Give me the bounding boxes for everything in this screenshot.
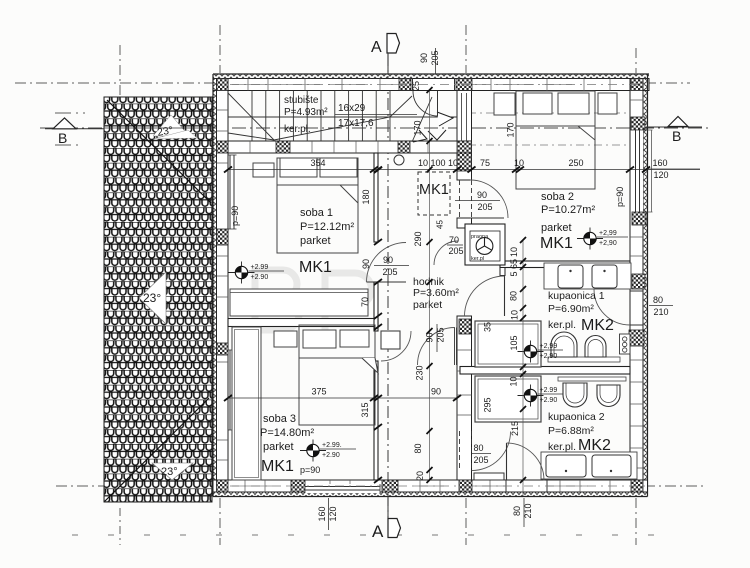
svg-text:10: 10	[514, 158, 524, 168]
soba1 pillow 1	[280, 158, 317, 177]
svg-text:parket: parket	[263, 441, 294, 453]
soba2 bed	[516, 91, 595, 189]
svg-text:parket: parket	[300, 235, 331, 247]
svg-text:parket: parket	[413, 299, 442, 311]
svg-text:315: 315	[360, 402, 370, 417]
checker blocks left wall	[217, 141, 229, 153]
checker blocks top wall	[217, 79, 229, 91]
svg-text:25: 25	[411, 81, 421, 91]
svg-text:MK2: MK2	[578, 437, 611, 454]
stair bottom wall	[228, 141, 472, 153]
svg-text:+2,90: +2,90	[599, 240, 617, 247]
svg-text:205: 205	[436, 327, 446, 342]
kup2 sink 2	[592, 455, 631, 477]
svg-text:375: 375	[311, 387, 326, 397]
svg-text:17x17,6: 17x17,6	[338, 118, 374, 129]
kup1 bidet	[585, 336, 606, 358]
svg-text:+2,99: +2,99	[599, 230, 617, 237]
svg-text:230: 230	[415, 365, 425, 380]
svg-text:A: A	[371, 39, 382, 56]
svg-text:kupaonica 1: kupaonica 1	[548, 290, 605, 302]
laundry closet box	[465, 224, 505, 265]
kup2 upper door leaf	[455, 328, 457, 366]
svg-text:70: 70	[360, 297, 370, 307]
svg-text:5: 5	[509, 271, 519, 276]
wall soba2-kupaonica1	[500, 261, 630, 268]
window soba1 left wall	[229, 155, 237, 229]
svg-text:210: 210	[653, 307, 668, 317]
svg-text:90: 90	[419, 53, 429, 63]
kup2 level marker	[518, 385, 564, 407]
kup1 shelf	[548, 357, 620, 362]
checker blocks bottom wall	[291, 480, 305, 492]
vertical dim chain x523	[509, 237, 527, 496]
soba2 level marker	[577, 228, 628, 250]
svg-text:soba 1: soba 1	[300, 207, 333, 219]
svg-text:10 100 10: 10 100 10	[418, 158, 458, 168]
svg-text:soba 2: soba 2	[541, 191, 574, 203]
svg-text:ker.pl.: ker.pl.	[548, 441, 576, 453]
svg-text:80: 80	[512, 506, 522, 516]
kup1 level marker	[518, 341, 564, 363]
svg-text:10: 10	[510, 310, 520, 320]
soba1 pillow 2	[320, 158, 357, 177]
washing machine	[476, 238, 493, 255]
svg-text:80: 80	[509, 291, 519, 301]
svg-text:+2.99: +2.99	[540, 387, 558, 394]
window soba2 right wall	[633, 130, 653, 212]
svg-text:+2,90: +2,90	[540, 353, 558, 360]
hodnik MK1 dashed box	[418, 172, 450, 215]
soba2 door arc	[470, 180, 508, 218]
svg-text:90: 90	[431, 387, 441, 397]
gridline vertical x636 bottom	[635, 498, 637, 545]
kup2 door dim 80/205	[471, 443, 491, 465]
soba3 pillow 1	[303, 330, 336, 348]
checker block hodnik east wall top	[457, 153, 472, 171]
right wall insulation	[643, 79, 648, 493]
door opening right wall kup1	[630, 291, 643, 325]
checker blocks stair wall	[276, 141, 290, 153]
kup1 door west wall stub	[500, 268, 505, 276]
soba1 door leaf	[367, 281, 407, 283]
gridline vertical x120	[119, 45, 121, 97]
kup1 door leaf	[504, 276, 506, 316]
kup2 bidet	[597, 385, 620, 407]
svg-text:MK2: MK2	[581, 317, 614, 334]
svg-text:70: 70	[449, 235, 459, 245]
staircase	[228, 91, 457, 143]
top door dim 90/205 rotated	[419, 48, 440, 74]
door opening top wall (landing exit)	[413, 79, 455, 91]
soba2 door leaf	[470, 217, 504, 219]
svg-text:MK1: MK1	[261, 458, 294, 475]
kup2 exterior door arc	[507, 443, 545, 481]
svg-text:+2.90: +2.90	[251, 274, 269, 281]
kup1 shower	[475, 321, 541, 367]
svg-text:120: 120	[653, 170, 668, 180]
svg-text:295: 295	[483, 397, 493, 412]
svg-text:160: 160	[317, 506, 327, 521]
main horizontal dim chain y169.5	[224, 158, 700, 180]
svg-text:120: 120	[328, 506, 338, 521]
svg-text:p=90: p=90	[300, 465, 320, 475]
svg-text:80: 80	[413, 443, 423, 453]
svg-text:65: 65	[509, 259, 519, 269]
svg-text:P=4.93m²: P=4.93m²	[284, 107, 328, 118]
right door dim 80/210	[649, 295, 673, 317]
svg-text:16x29: 16x29	[338, 103, 366, 114]
section marker B left	[45, 118, 104, 146]
svg-text:170: 170	[413, 120, 423, 135]
kup2 toilet	[563, 383, 587, 407]
gridline vertical x636 top	[635, 48, 637, 73]
soba1 dresser	[230, 289, 368, 316]
axis dash top wall	[230, 84, 645, 86]
left wall insulation	[213, 79, 217, 493]
svg-text:kupaonica 2: kupaonica 2	[548, 411, 605, 423]
gridline horizontal y145 right	[468, 144, 630, 146]
svg-text:90: 90	[383, 255, 393, 265]
gridline horizontal bottom y535	[72, 534, 672, 536]
svg-text:stubište: stubište	[284, 95, 319, 106]
svg-text:90: 90	[425, 332, 435, 342]
slope marker 23 upper	[153, 115, 197, 139]
soba1 level marker	[229, 262, 285, 284]
kup2 shower	[475, 376, 541, 422]
kup2 door opening jambs in hodnik east wall	[460, 431, 472, 470]
svg-text:80: 80	[653, 295, 663, 305]
soba3 texts	[260, 413, 314, 475]
soba2 nightstand left	[494, 93, 515, 115]
svg-text:parket: parket	[541, 222, 572, 234]
stair arrows	[413, 112, 453, 142]
soba1 texts	[299, 207, 354, 276]
slope marker 23 middle	[139, 272, 166, 324]
soba2 door opening jambs	[460, 180, 472, 218]
svg-text:210: 210	[523, 503, 533, 518]
svg-text:+2.99: +2.99	[251, 264, 269, 271]
svg-text:290: 290	[413, 231, 423, 246]
svg-text:praona: praona	[471, 234, 489, 240]
stair rise divider line	[335, 114, 417, 116]
svg-text:soba 3: soba 3	[263, 413, 296, 425]
svg-text:P=6.88m²: P=6.88m²	[548, 425, 594, 437]
svg-text:170: 170	[506, 122, 516, 137]
soba3 pillow 2	[340, 330, 369, 347]
roof hip line upper	[107, 100, 211, 203]
soba3 level marker	[300, 440, 356, 462]
svg-text:+2.99.: +2.99.	[322, 442, 342, 449]
top wall insulation	[213, 74, 649, 79]
wall kupaonica1-kupaonica2	[460, 367, 630, 375]
svg-text:MK1: MK1	[540, 235, 573, 252]
kup2 shelf	[558, 377, 626, 381]
svg-text:A: A	[372, 522, 384, 541]
svg-text:MK1: MK1	[299, 259, 332, 276]
soba2 door dim 90/205	[455, 190, 500, 212]
landing-soba2 wall	[457, 91, 472, 142]
svg-text:35: 35	[483, 322, 493, 332]
svg-text:205: 205	[382, 267, 397, 277]
vertical dim chain x499 labels 35/295	[483, 322, 493, 413]
svg-text:p=90: p=90	[230, 206, 240, 226]
landing door leaf and arc	[413, 91, 438, 116]
kup2 texts	[548, 411, 611, 454]
soba3 nightstand	[274, 331, 297, 347]
gridline horizontal y83	[15, 82, 690, 84]
soba3 bed	[299, 325, 378, 425]
interior wall soba1-soba3	[228, 319, 378, 327]
kup2 exterior door leaf	[506, 443, 508, 480]
bottom door dim 80/210 rotated	[512, 498, 533, 527]
soba2 pillow 2	[558, 93, 589, 114]
svg-text:105: 105	[509, 335, 519, 350]
kup2 sink 1	[546, 455, 586, 477]
svg-text:90: 90	[361, 259, 371, 269]
kup1 sink 2	[592, 265, 617, 288]
roof hip line lower	[105, 398, 209, 501]
section marker A bottom	[372, 496, 401, 541]
gridline horizontal bottom y486	[56, 485, 704, 487]
bottom wall insulation	[213, 492, 648, 497]
svg-text:+2,99: +2,99	[540, 343, 558, 350]
svg-text:P=12.12m²: P=12.12m²	[300, 221, 354, 233]
window dim 160/120 right	[652, 158, 668, 180]
soba1 door arc	[367, 243, 407, 283]
gridline horizontal y113 left	[55, 112, 85, 114]
hodnik west wall	[374, 153, 378, 480]
kup1 right door arc	[594, 289, 630, 325]
svg-text:+2.90: +2.90	[540, 397, 558, 404]
svg-text:205: 205	[473, 455, 488, 465]
soba2 texts	[540, 191, 595, 252]
soba3 door leaf square	[381, 331, 400, 349]
laundry door arc	[434, 241, 458, 265]
svg-text:23°: 23°	[143, 291, 161, 305]
gridline vertical A-A x388	[387, 54, 389, 518]
vertical dim chain x429.5	[411, 81, 433, 483]
kup2 hodnik door leaf	[474, 473, 504, 480]
svg-text:250: 250	[568, 158, 583, 168]
hodnik texts	[413, 276, 459, 311]
soba3 wardrobe	[232, 327, 261, 480]
gridline vertical x220 bottom	[219, 498, 221, 545]
svg-text:10: 10	[509, 247, 519, 257]
right wall masonry	[630, 79, 643, 493]
kup1 hodnik door arc	[465, 276, 505, 316]
checker block hodnik east wall mid	[459, 319, 471, 334]
stair texts	[284, 95, 374, 135]
section marker B right	[646, 117, 702, 145]
lower horizontal dim chain y398	[224, 387, 461, 402]
gridline vertical x220 top	[219, 25, 221, 73]
kup2 counter	[541, 452, 637, 479]
bottom wall masonry	[213, 480, 648, 492]
kup1 texts	[548, 290, 614, 334]
svg-text:P=10.27m²: P=10.27m²	[541, 204, 595, 216]
roof tiled area	[104, 97, 213, 502]
svg-text:20: 20	[415, 471, 425, 481]
vertical dim chain x378 labels	[360, 189, 371, 417]
checker blocks right wall	[631, 117, 645, 130]
soba1 bed	[277, 158, 358, 253]
kup2 upper door arc	[418, 328, 456, 366]
gridline horizontal y145 left	[55, 144, 82, 146]
window soba3 left wall	[229, 350, 237, 430]
svg-text:215: 215	[510, 421, 520, 436]
soba2 nightstand right	[598, 93, 617, 114]
left wall masonry	[217, 79, 229, 493]
svg-text:75: 75	[480, 158, 490, 168]
svg-text:ker.pl.: ker.pl.	[284, 124, 311, 135]
soba2 pillow 1	[523, 93, 552, 114]
svg-text:23°: 23°	[161, 466, 178, 478]
laundry door dim 70/205	[447, 235, 464, 256]
gridline vertical x120 bottom	[119, 508, 121, 545]
svg-text:205: 205	[477, 202, 492, 212]
soba1 door dim 90/205	[374, 255, 409, 277]
svg-text:45: 45	[436, 220, 445, 229]
svg-text:p=90: p=90	[615, 187, 625, 207]
bottom window dim 160/120 rotated	[317, 498, 338, 530]
window soba3 bottom wall	[305, 484, 380, 493]
svg-text:ker.pl.: ker.pl.	[548, 319, 576, 331]
soba3 door dim 90/205 rotated	[425, 324, 446, 352]
kup2 hodnik door arc	[472, 432, 511, 471]
svg-text:354: 354	[310, 158, 325, 168]
kup1 sink 1	[558, 265, 583, 288]
kup1 counter	[544, 263, 631, 289]
svg-text:P=6.90m²: P=6.90m²	[548, 303, 594, 315]
svg-text:P=3.60m²: P=3.60m²	[413, 287, 459, 299]
axis dash bottom wall	[230, 485, 645, 487]
top wall masonry	[213, 79, 649, 91]
svg-text:P=14.80m²: P=14.80m²	[260, 427, 314, 439]
soba3 door arc	[381, 331, 411, 361]
soba1 nightstand	[253, 163, 274, 177]
svg-text:180: 180	[361, 189, 371, 204]
svg-text:B: B	[58, 130, 67, 146]
door opening bottom wall kup2	[506, 480, 547, 492]
gridline vertical x466 bottom	[465, 498, 467, 545]
gridline horizontal B-B y128	[40, 127, 710, 129]
hodnik east wall upper	[457, 153, 472, 480]
section line through roof y128	[104, 127, 213, 129]
svg-text:ker.pl: ker.pl	[471, 256, 484, 262]
right window fraction line	[648, 168, 700, 170]
svg-text:205: 205	[448, 246, 463, 256]
stair start circle	[394, 155, 404, 165]
svg-text:+2.90: +2.90	[322, 452, 340, 459]
kup1 radiator	[620, 334, 631, 354]
gridline vertical x466 top	[465, 25, 467, 73]
svg-text:B: B	[672, 128, 681, 144]
svg-text:205: 205	[430, 50, 440, 65]
watermark	[255, 270, 372, 335]
svg-text:MK1: MK1	[419, 182, 449, 198]
svg-text:80: 80	[473, 443, 483, 453]
section marker A top	[371, 34, 400, 75]
svg-text:10: 10	[509, 376, 519, 386]
gridline horizontal y113 right	[468, 112, 630, 114]
slope marker 23 lower	[152, 463, 193, 480]
kup1 toilet	[551, 332, 577, 357]
svg-text:160: 160	[652, 158, 667, 168]
svg-text:90: 90	[477, 190, 487, 200]
